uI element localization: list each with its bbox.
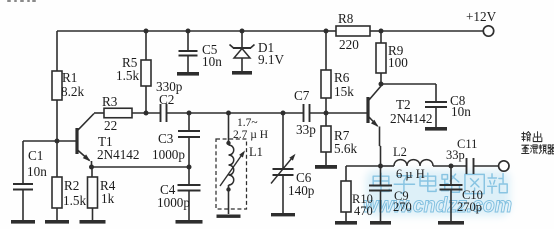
svg-text:R6: R6: [334, 70, 350, 85]
svg-text:R8: R8: [338, 11, 354, 26]
svg-text:2N4142: 2N4142: [97, 147, 140, 162]
svg-text:R3: R3: [102, 94, 118, 109]
svg-text:15k: 15k: [334, 84, 354, 99]
svg-text:T2: T2: [396, 97, 411, 112]
svg-text:L2: L2: [393, 145, 407, 159]
svg-text:L1: L1: [249, 145, 263, 159]
svg-text:140p: 140p: [288, 183, 315, 198]
svg-text:1.5k: 1.5k: [116, 68, 139, 83]
svg-text:10n: 10n: [202, 54, 222, 69]
svg-text:1000p: 1000p: [152, 147, 185, 162]
svg-text:6 µ H: 6 µ H: [396, 167, 425, 181]
svg-text:www.cndzz.com: www.cndzz.com: [363, 194, 512, 217]
svg-text:C1: C1: [28, 148, 43, 163]
svg-text:R1: R1: [62, 70, 77, 85]
svg-text:1.7~: 1.7~: [237, 117, 258, 129]
svg-text:5.6k: 5.6k: [334, 141, 357, 156]
svg-text:+12V: +12V: [466, 9, 497, 24]
svg-text:R2: R2: [64, 178, 79, 193]
svg-text:8.2k: 8.2k: [61, 84, 84, 99]
svg-text:270p: 270p: [457, 200, 482, 214]
svg-text:C7: C7: [294, 88, 310, 103]
svg-text:270: 270: [393, 200, 412, 214]
svg-text:2N4142: 2N4142: [390, 111, 433, 126]
svg-text:9.1V: 9.1V: [258, 52, 284, 67]
svg-text:33p: 33p: [446, 148, 465, 162]
svg-text:C3: C3: [158, 131, 174, 146]
svg-text:470: 470: [354, 204, 373, 218]
svg-text:10n: 10n: [27, 164, 47, 179]
svg-text:C2: C2: [159, 92, 174, 107]
svg-text:100: 100: [388, 55, 408, 70]
svg-text:22: 22: [104, 118, 117, 133]
svg-text:1k: 1k: [101, 191, 115, 206]
svg-text:1.5k: 1.5k: [63, 193, 86, 208]
svg-text:220: 220: [339, 37, 359, 52]
svg-text:33p: 33p: [296, 122, 316, 137]
svg-text:1000p: 1000p: [157, 195, 190, 210]
svg-text:2.7 µ H: 2.7 µ H: [233, 129, 268, 141]
svg-text:10n: 10n: [451, 104, 471, 119]
